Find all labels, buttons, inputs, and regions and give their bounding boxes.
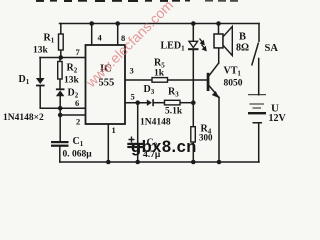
svg-text:B: B xyxy=(239,32,246,43)
diode D1 (pointing down) xyxy=(36,78,45,86)
wire emitter down xyxy=(218,98,220,163)
svg-text:6: 6 xyxy=(75,98,79,108)
switch SA arm xyxy=(252,43,258,65)
LED1 symbol xyxy=(188,39,206,51)
svg-text:3: 3 xyxy=(130,66,134,76)
wire SA top stub xyxy=(258,24,260,42)
resistor R4 body xyxy=(191,127,196,142)
wire battery bottom xyxy=(258,123,260,162)
svg-text:1k: 1k xyxy=(154,69,165,79)
wire R2 bottom to D2 xyxy=(59,79,61,89)
wire LED top xyxy=(192,24,194,42)
wire collector diagonal xyxy=(209,63,218,75)
resistor R3 body xyxy=(165,100,181,105)
svg-text:4.7μ: 4.7μ xyxy=(143,150,161,160)
svg-text:SA: SA xyxy=(265,43,279,54)
wire R3 to node xyxy=(180,102,193,104)
wire pin3 to R5 xyxy=(125,79,152,81)
wire C1 bottom xyxy=(59,147,61,163)
wire pin8 xyxy=(117,24,119,46)
title text cut off at top edge xyxy=(36,0,238,2)
svg-text:13k: 13k xyxy=(33,46,49,56)
transistor emitter arrow xyxy=(212,91,219,98)
svg-text:12V: 12V xyxy=(269,113,287,124)
svg-text:1: 1 xyxy=(112,125,116,135)
wire pin2 line xyxy=(60,114,85,116)
wire bottom rail xyxy=(60,161,259,163)
resistor R1 body xyxy=(59,34,64,50)
svg-text:300: 300 xyxy=(199,133,213,143)
svg-text:0. 068μ: 0. 068μ xyxy=(63,150,93,160)
capacitor C2 (electrolytic) xyxy=(127,137,145,149)
diode D3 (pointing right) xyxy=(147,99,154,106)
wire C2 bottom xyxy=(137,147,139,163)
wire pin7 line xyxy=(40,57,86,59)
speaker B xyxy=(214,27,232,56)
svg-text:2: 2 xyxy=(76,117,80,127)
resistor R5 body xyxy=(152,78,168,83)
LED light arrows xyxy=(200,39,206,51)
svg-text:5.1k: 5.1k xyxy=(165,107,183,117)
wire pin1 xyxy=(107,124,109,162)
wire emitter diagonal xyxy=(209,86,219,98)
wire R2 top xyxy=(59,58,61,62)
resistor R2 body xyxy=(58,62,62,80)
wire R1 bottom to node xyxy=(60,50,62,58)
wire C2 top xyxy=(137,103,139,143)
wire D1 bottom branch xyxy=(40,86,60,108)
capacitor C1 xyxy=(51,141,69,147)
wire pin5 to D3 xyxy=(125,102,147,104)
svg-text:1N4148: 1N4148 xyxy=(140,118,171,128)
IC 555 box U1 xyxy=(86,45,126,124)
svg-text:13k: 13k xyxy=(64,76,80,86)
wire speaker bottom to collector xyxy=(218,48,220,63)
wire LED cathode down to node xyxy=(192,50,194,127)
wire speaker top xyxy=(218,24,220,35)
diode D2 (pointing up) xyxy=(56,88,65,96)
transistor Q1 base bar xyxy=(207,73,210,91)
wire D2 down to C1 xyxy=(59,96,61,141)
svg-text:5: 5 xyxy=(131,92,135,102)
wire SA to battery xyxy=(258,59,260,95)
wire top rail xyxy=(60,23,260,25)
wire D1 top xyxy=(39,58,41,79)
wire R1 top xyxy=(60,24,62,35)
battery U plates xyxy=(248,94,266,123)
svg-text:8050: 8050 xyxy=(224,79,243,89)
svg-text:1N4148×2: 1N4148×2 xyxy=(3,113,44,123)
svg-text:8Ω: 8Ω xyxy=(236,43,249,54)
wire pin4 xyxy=(91,24,93,46)
wire pin6 line xyxy=(60,107,85,109)
wire R5 to base xyxy=(168,79,207,81)
wire D3 to R3 xyxy=(154,102,165,104)
wire R4 bottom xyxy=(192,142,194,162)
